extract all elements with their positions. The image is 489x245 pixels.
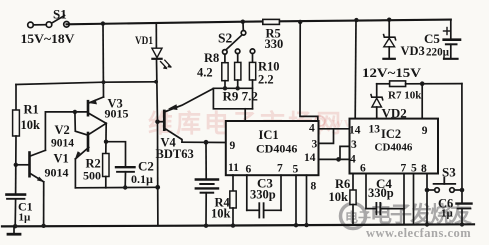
wire: resistor bus [213,87,252,89]
svg-text:15V~18V: 15V~18V [21,31,76,46]
svg-text:6: 6 [246,164,252,176]
resistor R10 2.2 [249,49,279,109]
wire: top supply rail [67,20,451,25]
svg-text:14: 14 [349,125,361,137]
transistor V3 9015 [88,97,129,124]
svg-text:3: 3 [312,139,318,151]
wire: rail to IC2 top [354,20,357,119]
node: rail R4 [231,223,235,227]
svg-text:10k: 10k [211,207,231,221]
wire: IC2 pin5 to ground [413,174,415,225]
wire: column to ground rail [157,187,159,225]
node: R7 right [420,81,425,86]
svg-text:VD1: VD1 [135,33,153,47]
wire: IC1 pin14 to IC2 pin4 [320,158,350,160]
wire: to IC2 pin 9 [421,84,423,119]
capacitor C1 1u [7,165,33,227]
wire: V1 emitter to ground [43,182,45,226]
svg-text:5: 5 [293,164,299,176]
node: right column S3 [460,188,465,193]
node: rail IC1 supply [298,20,302,24]
wire: bus to IC1 pin 16 [213,88,252,121]
node: R8 bus [223,86,227,90]
svg-text:V2: V2 [55,123,70,137]
node: rail junction left [101,21,105,25]
resistor R5 330 [263,19,283,51]
svg-text:1µ: 1µ [441,208,454,220]
svg-text:10k: 10k [21,118,41,132]
capacitor C6 1u [438,197,472,225]
svg-text:电子发烧友: 电子发烧友 [370,202,472,227]
svg-text:V1: V1 [54,152,69,166]
node: V4 base [155,119,160,124]
svg-text:6: 6 [360,163,366,175]
svg-text:4: 4 [350,154,356,166]
switch S3 [427,165,462,193]
transistor V4 BDT63 [156,89,214,162]
resistor R7 10k [377,81,462,102]
svg-text:0.1µ: 0.1µ [131,172,153,186]
node: R9 bus [236,86,240,90]
svg-text:VD3: VD3 [401,44,425,58]
svg-text:8: 8 [421,163,427,175]
svg-text:9: 9 [422,125,428,137]
capacitor C2 0.1u [116,159,154,188]
wire: left bias rail [16,82,156,85]
node: bias crossing [102,80,106,84]
node: bus to VD1 column [155,185,160,190]
svg-text:9014: 9014 [45,166,69,180]
svg-text:8: 8 [311,181,317,193]
wire: V2 base drop [75,112,87,135]
wire: IC1 pin3 jog [320,129,334,144]
resistor R4 10k [211,175,236,226]
wire: V2 emitter drop [74,159,76,188]
node: S3 tap [425,188,430,193]
svg-text:S1: S1 [53,7,67,22]
resistor R6 10k [329,174,357,225]
wire: IC2 pin7 to ground [403,174,405,225]
node: C2 bottom [123,185,127,189]
wire: V4 collector to IC1 pin 9 [182,141,226,143]
svg-text:12V~15V: 12V~15V [362,65,422,80]
node: rail VD3 [387,18,391,22]
svg-text:S3: S3 [442,165,456,180]
svg-text:电子: 电子 [345,210,371,225]
svg-text:14: 14 [304,152,316,164]
svg-text:9014: 9014 [51,138,74,150]
svg-text:R1: R1 [24,103,39,117]
node: rail C1 [13,224,17,228]
wire: V4 base column lower [157,122,159,188]
node: pin9 junction [204,140,209,145]
svg-text:4: 4 [309,123,315,135]
switch S2 [218,20,246,50]
wire: to C2 top [106,142,126,166]
transistor V1 9014 [16,150,69,182]
svg-text:13: 13 [369,124,381,136]
svg-text:R10: R10 [258,60,280,74]
wire: IC1 pin5 to ground [295,175,297,225]
svg-text:IC1: IC1 [259,128,279,142]
svg-text:www.elecfans.com: www.elecfans.com [366,226,471,240]
capacitor C4 330p [366,174,404,215]
node: rail IC2 supply [354,18,358,22]
ground [8,226,20,234]
svg-text:7: 7 [277,163,283,175]
node: rail battery [204,224,208,228]
svg-text:R8: R8 [204,51,219,65]
wire: VD1 cathode to V4 base [157,60,158,122]
svg-text:330: 330 [265,37,284,51]
wire: V1 collector riser to V3 base [45,112,87,150]
svg-text:9: 9 [230,140,236,152]
IC U1 IC1 CD4046 [226,121,319,176]
svg-text:330p: 330p [368,186,394,200]
svg-text:3: 3 [351,139,357,151]
wire: IC1 pin8 to ground [306,175,308,225]
capacitor C3 330p [247,175,281,218]
transistor V2 9014 [51,123,106,160]
resistor R9 7.2 [223,49,258,104]
svg-text:IC2: IC2 [381,127,401,141]
node: V2 base tap [73,110,77,114]
node: VD1 bias crossing [154,80,158,84]
svg-text:220µ: 220µ [426,45,449,59]
wire: feedback bus [75,186,157,189]
svg-text:1µ: 1µ [19,212,32,224]
resistor R2 500 [83,154,109,188]
wire: bottom ground rail [2,224,474,226]
IC U2 IC2 CD4046 [349,119,438,175]
wire: left supply drop [102,24,105,97]
LED VD1 [152,23,172,69]
svg-text:11: 11 [228,162,239,174]
zener diode VD2 [371,84,407,121]
svg-text:10k: 10k [329,190,349,204]
wire: rail to IC1 top corner [300,22,318,121]
svg-text:9015: 9015 [105,107,129,121]
resistor R8 4.2 [197,50,228,89]
svg-text:2.2: 2.2 [258,73,274,87]
wire: collector node drop [105,123,107,153]
switch S1 [28,16,70,28]
svg-text:R6: R6 [335,177,350,191]
node: rail pin5 [294,223,298,227]
node: rail pin8 [425,222,429,226]
node: V1 base [14,163,18,167]
node: rail V1 [41,224,45,228]
node: rail C6 [460,222,464,226]
svg-text:500: 500 [83,169,101,183]
resistor R1 10k [13,85,40,165]
capacitor C5 220u [424,20,460,59]
wire: IC1 pin4 to IC2 pin14 [320,128,350,130]
wire: IC2 pin3 jog [340,146,350,159]
node: pin14 net [336,157,341,162]
wire: right column [461,84,463,203]
svg-text:S2: S2 [218,31,233,46]
svg-text:330p: 330p [250,188,276,202]
wire: IC2 pin8 to ground [426,174,428,225]
node: R2 top [104,140,108,144]
svg-text:4.2: 4.2 [197,66,213,80]
svg-text:CD4046: CD4046 [375,142,413,154]
battery [196,142,218,225]
zener diode VD3 [383,20,424,59]
svg-text:CD4046: CD4046 [256,142,297,156]
svg-text:R7 10k: R7 10k [388,90,422,102]
svg-text:BDT63: BDT63 [156,147,194,161]
